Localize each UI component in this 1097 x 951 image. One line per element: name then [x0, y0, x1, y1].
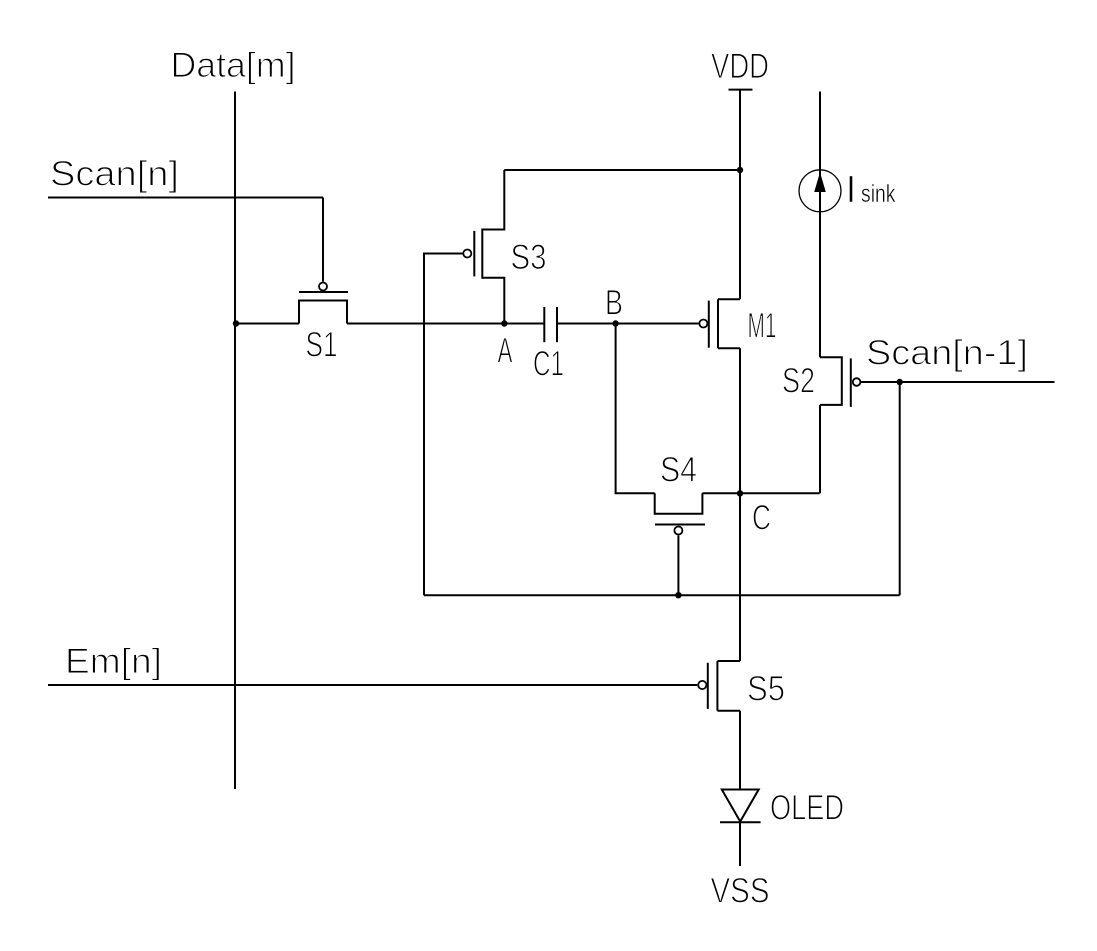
- label I sink: [851, 176, 896, 208]
- diode OLED: [720, 790, 761, 823]
- node C junction dot: [737, 490, 743, 496]
- svg-text:VDD: VDD: [711, 47, 769, 86]
- wire VDD down to M1 drain: [739, 90, 741, 300]
- wire C1 to M1 gate: [557, 323, 699, 325]
- wire Data[m] vertical: [234, 92, 236, 790]
- svg-text:C: C: [752, 499, 771, 538]
- svg-text:C1: C1: [533, 345, 564, 384]
- VDD terminal bar: [729, 89, 753, 91]
- node B junction dot: [612, 320, 618, 326]
- wire Em[n] horizontal: [48, 684, 697, 686]
- wire right riser to Scan[n-1]: [899, 382, 901, 595]
- wire S3 drain to VDD line: [504, 169, 740, 171]
- wire S2 gate to Scan[n-1]: [861, 381, 1054, 383]
- svg-text:Data[m]: Data[m]: [171, 46, 296, 85]
- current source arrow: [814, 172, 826, 192]
- transistor S5: [698, 661, 740, 711]
- bottom feedback rail: [424, 594, 900, 596]
- junction dot Data/S1: [233, 320, 239, 326]
- wire Scan[n] horizontal: [48, 197, 323, 199]
- wire S1 to node A: [347, 323, 544, 325]
- transistor S2: [820, 357, 860, 407]
- wire S5 source to OLED: [739, 711, 741, 790]
- current source circle: [799, 170, 841, 212]
- junction dot Scan[n-1] / riser: [897, 379, 903, 385]
- svg-text:VSS: VSS: [711, 872, 770, 911]
- svg-text:B: B: [605, 284, 623, 323]
- wire S3 gate to bottom rail: [424, 254, 463, 596]
- svg-text:Scan[n]: Scan[n]: [50, 155, 179, 194]
- junction dot S4 gate / bottom rail: [675, 592, 681, 598]
- wire Data to S1: [236, 323, 299, 325]
- transistor S1: [299, 283, 348, 324]
- svg-text:S3: S3: [511, 238, 547, 277]
- transistor S3: [463, 170, 504, 324]
- node A junction dot: [501, 320, 507, 326]
- svg-text:S5: S5: [747, 670, 785, 709]
- wire S4 gate drop to bottom rail: [677, 535, 679, 595]
- svg-text:Scan[n-1]: Scan[n-1]: [866, 334, 1028, 373]
- transistor S4: [655, 493, 705, 534]
- transistor M1: [699, 299, 740, 348]
- capacitor C1: [544, 307, 557, 342]
- svg-text:S1: S1: [306, 326, 338, 365]
- wire S1 gate drop: [322, 198, 324, 282]
- svg-text:S4: S4: [660, 451, 697, 490]
- junction dot S3 drain / VDD: [737, 167, 743, 173]
- svg-text:A: A: [498, 332, 513, 371]
- current source I sink line: [819, 92, 821, 358]
- svg-text:Em[n]: Em[n]: [65, 642, 162, 681]
- svg-text:sink: sink: [861, 180, 896, 208]
- svg-text:S2: S2: [782, 362, 815, 401]
- wire node C horizontal: [702, 492, 819, 494]
- svg-text:OLED: OLED: [770, 789, 844, 828]
- wire node B drop to S4: [616, 324, 655, 494]
- wire OLED to VSS: [739, 822, 741, 866]
- svg-text:M1: M1: [748, 307, 777, 346]
- wire S2 source down to node C: [819, 405, 821, 493]
- wire M1 source down through node C to S5: [739, 348, 741, 661]
